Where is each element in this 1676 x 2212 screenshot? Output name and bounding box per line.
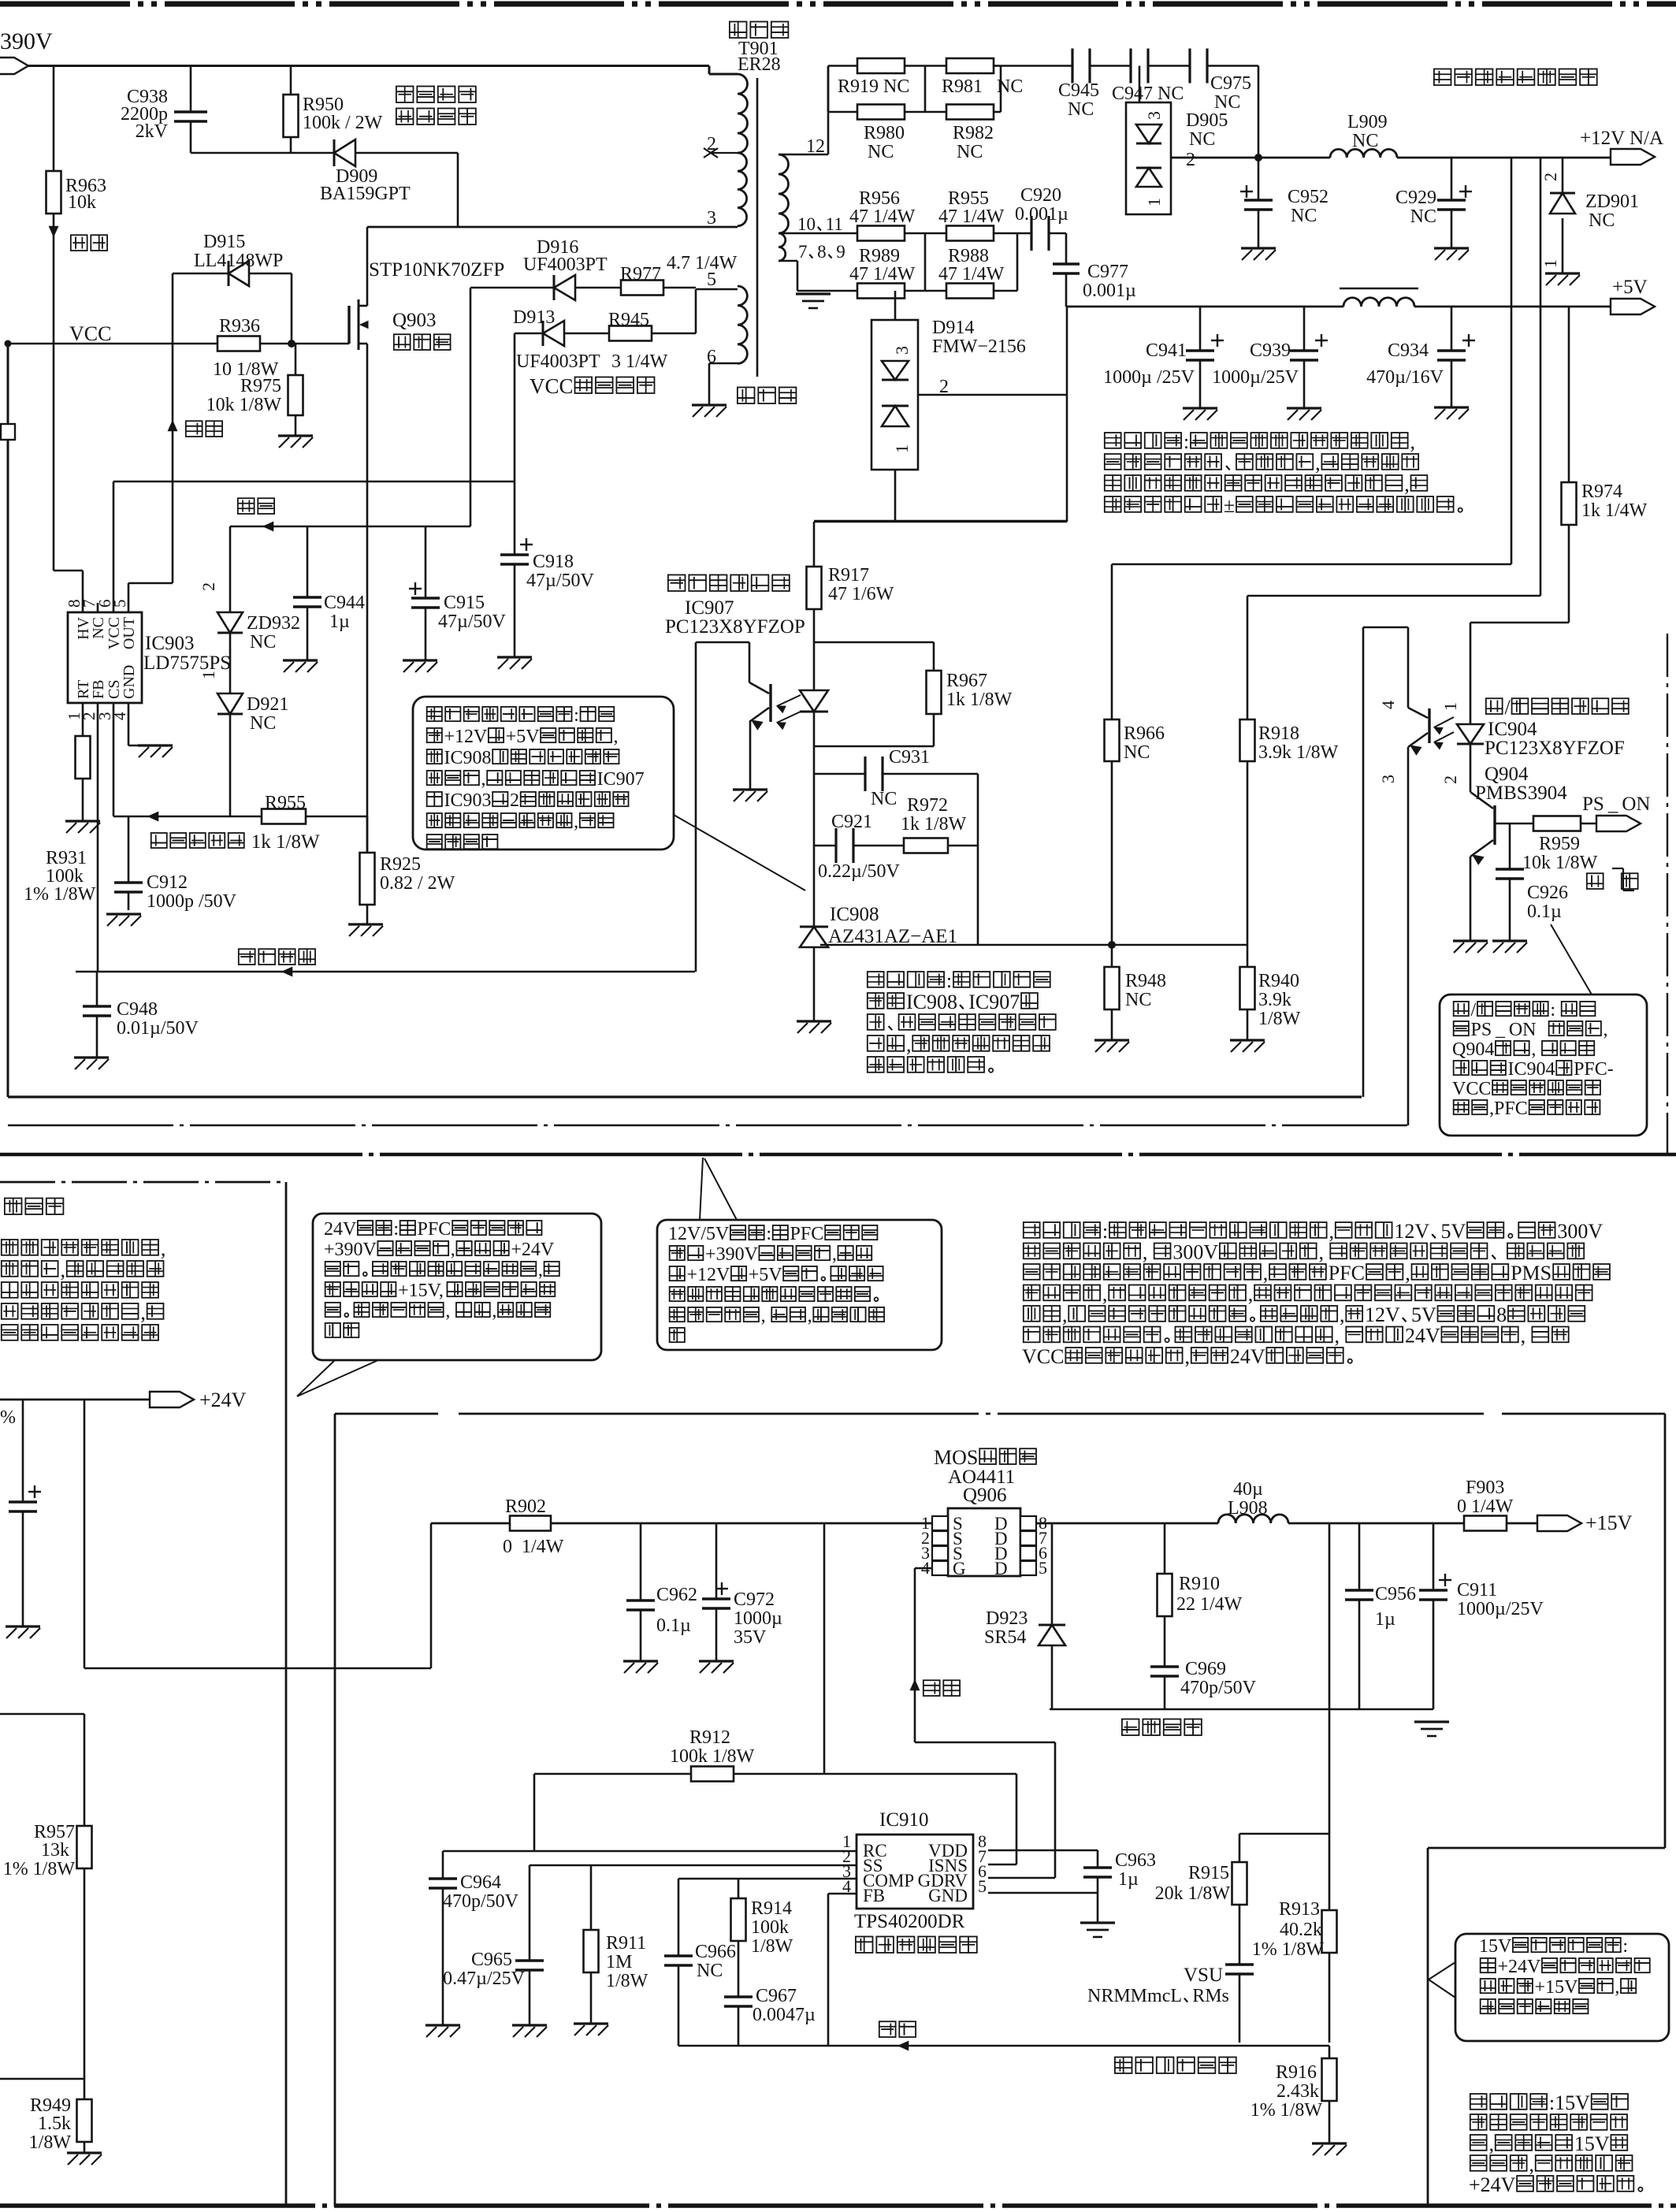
- svg-text:1.5k: 1.5k: [38, 2113, 71, 2134]
- svg-text:L909: L909: [1347, 112, 1388, 132]
- wire rung C921: [814, 845, 978, 847]
- wire +24V rail: [0, 1399, 150, 1401]
- wire aux bottom: [709, 363, 738, 405]
- inductor L908: [1218, 1479, 1288, 1523]
- svg-text:VCC: VCC: [1022, 1345, 1064, 1368]
- svg-text:47µ/50V: 47µ/50V: [438, 612, 506, 632]
- wire C948: [96, 972, 98, 1058]
- svg-text:R912: R912: [689, 1727, 730, 1748]
- ground R931: [65, 821, 100, 833]
- capacitor C975: [1190, 49, 1251, 113]
- svg-text:R911: R911: [606, 1933, 646, 1954]
- svg-text:C941: C941: [1146, 340, 1187, 361]
- wire C939: [1303, 307, 1306, 408]
- ground C948: [74, 1058, 109, 1069]
- svg-text:C934: C934: [1388, 340, 1429, 361]
- wire lower return: [814, 520, 1067, 522]
- Q906 left pins: [921, 1513, 966, 1578]
- wire pin12: [779, 66, 828, 155]
- svg-text::: :: [1622, 1936, 1628, 1957]
- svg-text:LL4148WP: LL4148WP: [194, 251, 283, 271]
- svg-text:GND: GND: [928, 1886, 968, 1905]
- svg-text:1% 1/8W: 1% 1/8W: [24, 884, 96, 905]
- svg-text:1% 1/8W: 1% 1/8W: [1252, 1939, 1325, 1960]
- svg-text:,: ,: [574, 812, 578, 832]
- ground C963: [1080, 1923, 1115, 1937]
- wire Q904 collector: [1470, 744, 1472, 792]
- wire R949 col: [84, 2079, 86, 2153]
- label overcurrent: [151, 831, 320, 853]
- svg-text:24V: 24V: [324, 1219, 357, 1240]
- svg-text:PS _ ON: PS _ ON: [1471, 1020, 1537, 1040]
- capacitor C945: [1058, 49, 1099, 121]
- svg-text:C972: C972: [734, 1589, 775, 1610]
- wire R912 drop: [823, 1523, 826, 1774]
- wire R902 feed: [84, 1523, 431, 1668]
- svg-text:47 1/4W: 47 1/4W: [938, 264, 1005, 284]
- resistor R913: [1252, 1899, 1337, 1960]
- svg-text:FB: FB: [90, 680, 107, 699]
- resistor R977: [620, 253, 738, 296]
- svg-text:Q903: Q903: [392, 310, 437, 331]
- svg-text:ER28: ER28: [738, 54, 781, 75]
- resistor R950: [284, 95, 383, 137]
- wire C944 drop: [307, 526, 309, 660]
- capacitor C966: [664, 1942, 736, 1981]
- svg-text:/: /: [1504, 696, 1511, 719]
- svg-text:10k 1/8W: 10k 1/8W: [206, 395, 282, 415]
- svg-text:,: ,: [1521, 1324, 1531, 1347]
- ground R940: [1230, 1040, 1265, 1052]
- ground IC903: [138, 745, 173, 757]
- svg-text:PFC: PFC: [1329, 1262, 1365, 1284]
- wire C962 drop: [640, 1523, 642, 1661]
- svg-text:IC907: IC907: [968, 991, 1020, 1013]
- svg-text:,: ,: [906, 1033, 912, 1056]
- svg-text:,: ,: [1329, 1220, 1334, 1243]
- resistor R915: [1155, 1862, 1247, 1905]
- notebox on-off control: [1440, 994, 1647, 1136]
- svg-text:+24V: +24V: [199, 1389, 247, 1411]
- svg-text:C965: C965: [471, 1950, 512, 1970]
- resistor R936: [213, 316, 279, 380]
- svg-text:0.1µ: 0.1µ: [1527, 902, 1562, 922]
- svg-text:STP10NK70ZFP: STP10NK70ZFP: [369, 259, 504, 281]
- svg-text:300V: 300V: [1557, 1220, 1603, 1243]
- wire R950 drop: [290, 66, 292, 154]
- inductor L909: [1330, 112, 1397, 158]
- label filter circuit partial: [5, 1198, 64, 1214]
- leader C926 note: [1551, 924, 1592, 994]
- svg-text:1/8W: 1/8W: [751, 1936, 793, 1957]
- junction sample: [1108, 941, 1116, 949]
- label VCC supply circuit: [530, 374, 654, 398]
- note 24V advisory left: [2, 1237, 166, 1340]
- svg-text:24V: 24V: [1405, 1324, 1440, 1347]
- resistor R966: [1105, 719, 1165, 763]
- svg-text:+24V: +24V: [1498, 1957, 1542, 1977]
- svg-text:4: 4: [1378, 701, 1398, 709]
- svg-text:2: 2: [510, 790, 519, 811]
- svg-text:R980: R980: [864, 123, 905, 143]
- note 15V advisory: [1469, 2091, 1642, 2196]
- svg-text:390V: 390V: [0, 28, 53, 54]
- svg-text:,: ,: [1488, 2132, 1494, 2155]
- svg-text:2kV: 2kV: [136, 121, 169, 142]
- ground C915: [403, 660, 437, 672]
- svg-text:0.22µ/50V: 0.22µ/50V: [818, 861, 900, 882]
- wire C966 col: [678, 1879, 680, 2046]
- label transformer T901: [730, 21, 789, 75]
- svg-text:NRMMmcL: NRMMmcL: [1087, 1986, 1182, 2006]
- svg-text:470p/50V: 470p/50V: [443, 1891, 519, 1912]
- svg-text:1000p /50V: 1000p /50V: [147, 891, 237, 912]
- svg-text:C911: C911: [1457, 1580, 1497, 1600]
- svg-text:ZD901: ZD901: [1585, 191, 1639, 212]
- svg-text:BA159GPT: BA159GPT: [320, 184, 411, 204]
- svg-text:,: ,: [1405, 1262, 1410, 1284]
- wire gate loop: [173, 273, 349, 583]
- svg-text:,: ,: [1404, 473, 1410, 496]
- wire FB rail: [678, 2041, 1329, 2050]
- wire C964 col: [442, 1851, 444, 2025]
- svg-text:,PFC: ,PFC: [1489, 1099, 1528, 1119]
- svg-text:,: ,: [1340, 1303, 1345, 1326]
- resistor F903: [1457, 1478, 1514, 1531]
- resistor R974: [1562, 481, 1648, 525]
- IC903 pin names top: [75, 616, 138, 649]
- svg-text:1/8W: 1/8W: [29, 2132, 72, 2153]
- capacitor C964: [429, 1872, 519, 1912]
- svg-text:2.43k: 2.43k: [1277, 2081, 1319, 2102]
- svg-text:,: ,: [492, 1301, 496, 1322]
- diode D914 upper: [882, 361, 909, 380]
- svg-text::: :: [1102, 1220, 1108, 1243]
- svg-text:3: 3: [892, 346, 912, 355]
- svg-text::: :: [1184, 430, 1189, 453]
- ground IC908: [797, 1021, 831, 1033]
- svg-text:,: ,: [1615, 1977, 1619, 1998]
- diode D914 lower: [882, 406, 909, 426]
- callout 12V5V note: [700, 1158, 737, 1220]
- svg-text:C945: C945: [1058, 80, 1099, 101]
- svg-text:1: 1: [892, 444, 912, 453]
- svg-text:1µ: 1µ: [1118, 1869, 1139, 1890]
- ground C929: [1434, 248, 1469, 260]
- svg-text:,: ,: [1318, 1240, 1329, 1263]
- wire R925: [366, 816, 369, 924]
- svg-text:C975: C975: [1210, 73, 1251, 94]
- wire C934: [1451, 307, 1453, 407]
- svg-text:C912: C912: [147, 872, 188, 893]
- wire source: [366, 347, 369, 853]
- wire filter ground rail: [1050, 1708, 1433, 1711]
- capacitor C965: [443, 1950, 544, 1989]
- svg-text:,: ,: [808, 1306, 812, 1326]
- svg-text:,: ,: [1184, 1345, 1190, 1368]
- svg-text:PFC: PFC: [418, 1219, 452, 1240]
- wire vcc diode row1: [470, 287, 696, 289]
- wire R919 row: [828, 66, 1001, 113]
- svg-text:D915: D915: [203, 232, 245, 252]
- arrow drive: [168, 421, 222, 437]
- svg-text:13k: 13k: [41, 1840, 69, 1861]
- svg-text:C929: C929: [1395, 188, 1436, 208]
- wire sense col: [1329, 1523, 1331, 2043]
- wire IC904 LED top: [1470, 623, 1472, 724]
- wire R957 col: [84, 1714, 86, 2079]
- svg-text:1µ: 1µ: [1375, 1609, 1395, 1630]
- box 24V section: [0, 1182, 286, 2206]
- wire ZD901: [1562, 158, 1564, 273]
- notebox 15V regulator: [1455, 1934, 1669, 2041]
- svg-text:NC: NC: [1068, 99, 1094, 120]
- svg-text:R945: R945: [608, 310, 649, 330]
- label IC903: [143, 633, 231, 674]
- resistor R981: [942, 58, 1023, 97]
- resistor R955b: [938, 188, 1005, 241]
- resistor R910: [1158, 1574, 1243, 1616]
- wire +12V rail: [1171, 157, 1611, 159]
- note IC908 advisory: [868, 969, 1056, 1073]
- svg-text:0 1/4W: 0 1/4W: [1457, 1496, 1514, 1517]
- svg-text:2: 2: [199, 582, 218, 591]
- svg-text:470p/50V: 470p/50V: [1180, 1678, 1257, 1698]
- wire ISNS pin: [988, 1864, 1016, 1866]
- svg-text:MOS: MOS: [934, 1446, 978, 1469]
- svg-text:LD7575PS: LD7575PS: [143, 652, 231, 674]
- capacitor C962: [626, 1585, 697, 1636]
- wire OUT pin5: [128, 583, 173, 612]
- wire pin7-8-9 tap: [779, 261, 797, 291]
- IC903 pin names bottom: [75, 665, 138, 699]
- package D905: [1126, 66, 1171, 215]
- resistor R963: [46, 171, 107, 214]
- svg-text:,: ,: [481, 769, 486, 790]
- svg-text:2: 2: [1540, 173, 1560, 181]
- svg-text:C947 NC: C947 NC: [1112, 84, 1184, 104]
- svg-text:PC123X8YFZOP: PC123X8YFZOP: [665, 616, 805, 638]
- svg-text::15V: :15V: [1549, 2091, 1590, 2114]
- svg-text:3.9k: 3.9k: [1258, 990, 1291, 1010]
- svg-text:G: G: [953, 1559, 966, 1578]
- svg-text:R913: R913: [1279, 1899, 1320, 1920]
- wire +5V rail: [1066, 306, 1611, 308]
- svg-text:,: ,: [451, 1240, 455, 1260]
- svg-text:NC: NC: [1125, 990, 1151, 1010]
- svg-text:C939: C939: [1250, 340, 1291, 361]
- svg-text:+390V: +390V: [324, 1240, 377, 1260]
- wire vcc diode row2: [515, 333, 696, 335]
- wire drain rail: [1036, 1522, 1537, 1525]
- svg-text:C977: C977: [1087, 262, 1128, 282]
- ground R975: [278, 436, 313, 448]
- notebox 12V 5V power: [657, 1220, 942, 1350]
- diode D913: [513, 307, 600, 372]
- ground C934: [1434, 407, 1469, 419]
- wire D923: [1051, 1523, 1054, 1709]
- connector +12V: [1580, 128, 1663, 165]
- svg-text:8: 8: [1496, 1303, 1507, 1326]
- svg-text:R916: R916: [1276, 2062, 1317, 2083]
- resistor R902: [503, 1496, 564, 1557]
- svg-text:IC908: IC908: [444, 748, 492, 768]
- svg-text:,: ,: [1531, 1039, 1540, 1060]
- svg-text:1000µ/25V: 1000µ/25V: [1457, 1599, 1544, 1619]
- svg-text:IC910: IC910: [879, 1809, 929, 1831]
- wire 12V sense drop: [1112, 158, 1511, 564]
- svg-text:,: ,: [1529, 2153, 1534, 2176]
- wire R948 col: [1111, 945, 1113, 1040]
- wire D914 pin1: [894, 470, 897, 521]
- svg-text:IC903: IC903: [444, 790, 492, 811]
- ground C965: [512, 2025, 547, 2037]
- capacitor C977: [1053, 262, 1136, 301]
- resistor R945: [608, 310, 668, 372]
- svg-text:C969: C969: [1185, 1659, 1226, 1679]
- capacitor C920: [1015, 185, 1068, 251]
- resistor R989: [849, 246, 916, 299]
- wire Q904 base: [1495, 823, 1596, 825]
- svg-text:R974: R974: [1581, 481, 1622, 502]
- ground C926: [1492, 941, 1527, 953]
- svg-text:+15V: +15V: [1535, 1977, 1579, 1998]
- IC910 box: [857, 1835, 973, 1909]
- svg-text:,: ,: [1062, 1303, 1068, 1326]
- svg-text:1% 1/8W: 1% 1/8W: [1250, 2100, 1323, 2121]
- ground C964: [426, 2025, 460, 2037]
- svg-text:NC: NC: [1189, 129, 1215, 150]
- svg-text:D923: D923: [986, 1608, 1028, 1629]
- note main advisory: [1022, 1220, 1610, 1368]
- label Q906: [934, 1446, 1036, 1506]
- label IC904: [1485, 696, 1629, 759]
- svg-text:R975: R975: [240, 376, 281, 396]
- capacitor C929: [1395, 185, 1472, 227]
- svg-text:NC: NC: [871, 789, 897, 809]
- label voltage control: [239, 949, 315, 965]
- svg-text:12V/5V: 12V/5V: [668, 1224, 730, 1244]
- capacitor C963: [1083, 1850, 1156, 1890]
- wire pin6 rail: [113, 481, 515, 612]
- wire 390V rail: [28, 66, 738, 75]
- svg-text:PFC: PFC: [790, 1224, 824, 1244]
- svg-text:1000µ /25V: 1000µ /25V: [1103, 367, 1195, 388]
- capacitor C926: [1496, 869, 1568, 922]
- svg-text:47 1/4W: 47 1/4W: [849, 206, 916, 227]
- callout 24V note: [297, 1360, 378, 1396]
- resistor R949: [29, 2095, 92, 2153]
- svg-text:12V: 12V: [1365, 1303, 1400, 1326]
- shunt reg IC908: [800, 904, 957, 947]
- label D914: [892, 318, 1026, 453]
- svg-text:R948: R948: [1125, 971, 1166, 991]
- notebox sampling error amp: [413, 697, 674, 849]
- svg-text:PMBS3904: PMBS3904: [1475, 783, 1567, 804]
- svg-text:NC: NC: [868, 142, 894, 162]
- left border of primary-side box: [7, 344, 9, 1097]
- svg-text:PFC-: PFC-: [1574, 1059, 1614, 1080]
- wire FB control: [76, 967, 695, 976]
- wire 24V feed drop: [84, 1400, 86, 1668]
- svg-text:,: ,: [161, 1237, 166, 1260]
- label Q903 type: [369, 259, 504, 281]
- svg-text::: :: [766, 1224, 771, 1244]
- svg-text:1/8W: 1/8W: [1258, 1009, 1301, 1029]
- wire gongdian: [230, 498, 470, 530]
- diode D909: [320, 139, 411, 204]
- wire VCC rail: [5, 340, 173, 348]
- junction gate: [288, 340, 295, 348]
- svg-text:+390V: +390V: [705, 1244, 759, 1265]
- resistor R980: [857, 105, 905, 163]
- svg-text:R940: R940: [1258, 971, 1299, 991]
- svg-text:+24V: +24V: [511, 1240, 555, 1260]
- svg-text:R955: R955: [265, 793, 306, 813]
- svg-text:,: ,: [538, 1260, 543, 1281]
- svg-text:0.82 / 2W: 0.82 / 2W: [380, 873, 455, 894]
- resistor R911: [584, 1930, 648, 1991]
- wire C965 col: [529, 1865, 531, 2025]
- IC903 pin numbers bottom: [65, 712, 129, 720]
- svg-text:C918: C918: [533, 552, 574, 572]
- svg-text:47 1/4W: 47 1/4W: [938, 206, 1005, 227]
- wire R911 col: [590, 1865, 593, 2024]
- transistor Q904: [1470, 764, 1567, 941]
- svg-text:PS _ ON: PS _ ON: [1582, 794, 1650, 815]
- svg-text:,: ,: [1263, 1262, 1269, 1284]
- svg-text:3: 3: [707, 208, 716, 229]
- svg-text:10: 10: [797, 214, 816, 234]
- R967 loop: [814, 642, 934, 746]
- wire row B: [797, 290, 1017, 292]
- svg-text:R910: R910: [1179, 1574, 1220, 1594]
- svg-text:10k 1/8W: 10k 1/8W: [1522, 853, 1598, 873]
- resistor R967: [927, 671, 1013, 714]
- svg-text:C944: C944: [324, 593, 365, 613]
- svg-text:R966: R966: [1124, 723, 1165, 744]
- zener ZD901: [1540, 173, 1639, 268]
- svg-text:IC908: IC908: [830, 904, 879, 925]
- capacitor C921: [818, 812, 900, 882]
- IC903 pin7 stub: [97, 603, 99, 612]
- svg-text:7: 7: [798, 242, 808, 262]
- svg-text:470µ/16V: 470µ/16V: [1366, 367, 1444, 388]
- capacitor C934: [1366, 334, 1475, 388]
- resistor R959: [1522, 816, 1598, 874]
- note filter advisory: [1105, 430, 1462, 517]
- svg-text:+24V: +24V: [1469, 2173, 1516, 2196]
- wire rung C931: [814, 773, 978, 775]
- ground R949: [67, 2153, 102, 2165]
- junction 12V node: [1254, 154, 1262, 162]
- ground filter rail: [1414, 1722, 1449, 1736]
- ground C962: [623, 1661, 658, 1673]
- label D905: [1144, 110, 1228, 206]
- svg-text:Q904: Q904: [1452, 1039, 1494, 1060]
- ground R925: [348, 924, 383, 936]
- connector PS_ON: [1582, 794, 1650, 831]
- svg-text:UF4003PT: UF4003PT: [523, 255, 608, 275]
- svg-text:1: 1: [1440, 702, 1460, 711]
- svg-text:1: 1: [1144, 198, 1164, 206]
- svg-text:PMS: PMS: [1511, 1262, 1552, 1284]
- svg-text:8: 8: [817, 242, 827, 262]
- wire Q906 gate: [915, 1568, 1055, 1878]
- svg-text:20k 1/8W: 20k 1/8W: [1155, 1883, 1231, 1904]
- svg-text:IC903: IC903: [145, 633, 195, 654]
- svg-text:C964: C964: [460, 1872, 501, 1893]
